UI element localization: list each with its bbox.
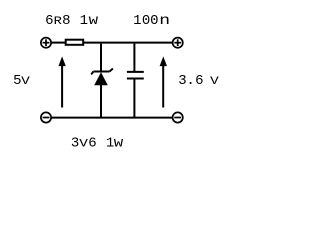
voltage arrow 5V (left) [61,66,63,108]
terminal + (top left, 5V input positive) [41,38,51,48]
wire zener branch lower [100,85,102,118]
resistor R1 6R8 1W [66,40,84,45]
bottom rail wire [51,117,172,119]
wire zener branch upper [100,44,102,72]
wire resistor to top-right terminal [84,42,173,44]
terminal - (bottom left, input negative) [41,112,51,122]
svg-text:100n: 100n [133,13,170,29]
wire capacitor branch upper [133,44,135,71]
terminal + (top right, 3.6V output positive) [173,38,183,48]
wire top-left terminal to resistor [51,42,65,44]
voltage arrow 3.6V (right) [162,66,164,108]
terminal - (bottom right, output negative) [173,112,183,122]
wire capacitor branch lower [133,80,135,118]
svg-text:3.6V: 3.6V [178,73,219,89]
zener diode D1 3V6 1W [91,69,113,75]
capacitor C1 100n [127,72,144,79]
svg-text:5V: 5V [13,73,30,89]
